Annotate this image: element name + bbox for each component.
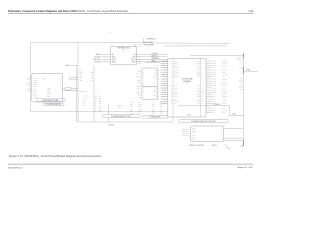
- wire J2 right pin 20: [206, 103, 225, 105]
- vertical wire C: [93, 66, 95, 122]
- svg-text:IGNITION: IGNITION: [152, 55, 158, 57]
- svg-text:SW B+: SW B+: [223, 101, 227, 103]
- svg-text:YEL: YEL: [213, 72, 216, 74]
- wire to page edge SPKR: [244, 70, 258, 72]
- wire jog down right: [229, 106, 243, 116]
- svg-text:GRN: GRN: [213, 85, 216, 87]
- svg-text:ORN: ORN: [80, 80, 83, 82]
- long horizontal net wire: [31, 111, 168, 113]
- svg-text:COL 3: COL 3: [192, 139, 196, 141]
- svg-text:SPKR HI: SPKR HI: [223, 96, 229, 98]
- svg-text:EMERG: EMERG: [136, 86, 141, 88]
- svg-text:GRN: GRN: [80, 70, 83, 72]
- wire J2 left pin 8: [161, 76, 168, 78]
- svg-text:1-95: 1-95: [248, 11, 253, 13]
- svg-text:SPK: SPK: [90, 76, 93, 78]
- wire right of central box: [178, 104, 229, 106]
- svg-text:4 WHT: 4 WHT: [47, 94, 51, 96]
- svg-text:BUSY: BUSY: [223, 107, 227, 109]
- svg-text:SPKR LO: SPKR LO: [237, 59, 242, 61]
- svg-text:GRN/Y: GRN/Y: [163, 103, 167, 105]
- wire J2 right pin 12: [206, 85, 225, 87]
- svg-text:6 MIC: 6 MIC: [33, 86, 36, 88]
- connector J4 box: [142, 87, 158, 100]
- wire J5 to bus upper 2: [69, 79, 78, 81]
- svg-text:GRN/Y: GRN/Y: [163, 92, 167, 94]
- svg-text:SW B+: SW B+: [117, 107, 121, 109]
- svg-text:BUS+: BUS+: [239, 78, 243, 80]
- svg-text:GRN/Y: GRN/Y: [163, 63, 167, 65]
- net labels left of top wires: [134, 43, 142, 48]
- svg-text:VIO: VIO: [213, 76, 215, 78]
- svg-text:GRN: GRN: [160, 104, 163, 106]
- wire J2 right pin 10: [206, 81, 227, 83]
- svg-text:SW B+: SW B+: [137, 80, 141, 82]
- svg-text:ORN: ORN: [197, 101, 200, 103]
- svg-text:SNS: SNS: [152, 110, 155, 112]
- svg-text:GND: GND: [174, 65, 177, 67]
- svg-text:ORN: ORN: [213, 110, 216, 112]
- svg-text:GRN: GRN: [99, 109, 102, 111]
- svg-text:RED: RED: [213, 81, 216, 83]
- svg-text:MIC: MIC: [156, 96, 158, 98]
- svg-text:SPKR+: SPKR+: [246, 70, 251, 72]
- right border dark segment bottom: [243, 140, 245, 146]
- svg-text:August 31, 2007: August 31, 2007: [238, 166, 254, 169]
- svg-text:IGN: IGN: [139, 95, 141, 97]
- wire J2 left pin 16: [161, 94, 168, 96]
- wire PWR pin right 2: [137, 55, 168, 57]
- svg-text:YEL: YEL: [213, 90, 216, 92]
- svg-text:SPKR 16: SPKR 16: [82, 100, 87, 102]
- svg-text:Schematics, Component Location: Schematics, Component Location Diagrams,…: [8, 10, 76, 13]
- svg-text:MIC 22: MIC 22: [82, 102, 86, 104]
- svg-text:BUSY: BUSY: [223, 90, 227, 92]
- wire bus junction: [63, 90, 78, 92]
- wire PA to bus: [66, 64, 78, 67]
- svg-text:RED: RED: [197, 90, 200, 92]
- figure caption: [9, 154, 101, 158]
- bottom border wire: [78, 121, 173, 123]
- svg-text:PTT: PTT: [138, 60, 141, 62]
- vertical bus wire B: [76, 66, 78, 122]
- svg-text:GND: GND: [154, 74, 157, 76]
- right border bus wire: [243, 53, 245, 146]
- svg-text:3 SWB+: 3 SWB+: [33, 80, 38, 82]
- svg-text:YEL: YEL: [197, 72, 200, 74]
- footer left text: [8, 167, 23, 169]
- wire J2 right pin 18: [206, 98, 227, 100]
- wire PWR pin right 3: [137, 58, 168, 60]
- svg-text:CLK: CLK: [174, 98, 177, 100]
- svg-text:NOTE 2: NOTE 2: [109, 125, 114, 127]
- sheet ref text: [241, 144, 244, 147]
- svg-text:GRN: GRN: [130, 102, 133, 104]
- svg-text:HOOK: HOOK: [138, 108, 142, 110]
- svg-text:FRNT 1 OF 2 SHOWN: FRNT 1 OF 2 SHOWN: [190, 145, 204, 147]
- svg-text:SPKR+: SPKR+: [137, 88, 141, 90]
- bottom main board label bar: [179, 120, 228, 124]
- wire J2 right pin 23: [206, 109, 227, 112]
- svg-text:COL 2: COL 2: [192, 137, 196, 139]
- svg-text:SPK: SPK: [95, 110, 98, 112]
- svg-text:GRN SWB+: GRN SWB+: [93, 59, 100, 61]
- svg-text:RED: RED: [213, 63, 216, 65]
- svg-text:BLK: BLK: [99, 98, 101, 100]
- svg-text:GND: GND: [133, 56, 136, 58]
- svg-text:CS: CS: [174, 103, 176, 105]
- wire J2 right pin 22: [206, 107, 226, 109]
- wire J6 to right border 2: [224, 138, 244, 140]
- svg-text:P/O INTERCONNECT BD: P/O INTERCONNECT BD: [46, 104, 61, 106]
- svg-text:9 TX: 9 TX: [33, 93, 36, 95]
- svg-text:GND: GND: [233, 114, 236, 116]
- svg-text:BLU: BLU: [99, 101, 101, 103]
- svg-text:MIC LO: MIC LO: [136, 58, 140, 60]
- svg-text:BLK: BLK: [213, 60, 216, 62]
- svg-text:SPKR HI: SPKR HI: [223, 78, 229, 80]
- net labels left margin group 1: [27, 73, 31, 80]
- svg-text:FL1: FL1: [67, 89, 69, 91]
- svg-text:+5V SW B+: +5V SW B+: [152, 53, 159, 55]
- svg-text:VIO: VIO: [198, 76, 200, 78]
- hook wire mark: [225, 144, 231, 149]
- svg-text:SNS: SNS: [138, 97, 141, 99]
- net labels left of J1 column: [136, 56, 142, 98]
- svg-text:MIC HI: MIC HI: [174, 74, 179, 76]
- filter FL1 box: [65, 87, 71, 90]
- svg-text:SPKR-: SPKR-: [137, 90, 141, 92]
- svg-text:SPKR-: SPKR-: [27, 84, 31, 86]
- wire J2 left pin 11: [157, 82, 168, 85]
- svg-text:RED: RED: [197, 63, 200, 65]
- wire J2 right pin 13: [206, 86, 226, 89]
- svg-text:RED: RED: [99, 107, 102, 109]
- svg-text:ORN: ORN: [213, 74, 216, 76]
- svg-text:MIC LO: MIC LO: [138, 104, 142, 106]
- svg-text:BLU: BLU: [197, 69, 200, 71]
- svg-text:SW B+: SW B+: [239, 67, 243, 69]
- connector J2 Control Head Interface box: [168, 58, 206, 117]
- svg-text:MIC HI: MIC HI: [223, 98, 228, 100]
- svg-text:BLK: BLK: [197, 87, 200, 89]
- svg-text:WHT: WHT: [130, 108, 133, 110]
- svg-text:2 BLK: 2 BLK: [47, 90, 50, 92]
- header title text: [8, 10, 254, 13]
- svg-text:PTT: PTT: [156, 65, 159, 67]
- svg-text:VIO: VIO: [99, 105, 101, 107]
- wire J2 left pin 4: [161, 67, 168, 69]
- svg-text:MIC HI: MIC HI: [137, 56, 142, 58]
- node label 5: [109, 32, 110, 34]
- svg-text:5: 5: [109, 32, 110, 34]
- label rows between buses: [82, 93, 89, 106]
- wire J2 right pin 1: [206, 60, 228, 62]
- wire central pin row 62: [145, 60, 161, 63]
- svg-text:GRN: GRN: [197, 94, 200, 96]
- svg-text:3 GRN: 3 GRN: [47, 92, 51, 94]
- svg-text:GRN/YEL: GRN/YEL: [161, 96, 167, 98]
- wire J2 right pin 5: [206, 68, 226, 71]
- svg-text:BLU: BLU: [80, 78, 83, 80]
- svg-text:WHT: WHT: [160, 110, 163, 112]
- svg-text:WHT: WHT: [99, 99, 102, 101]
- svg-text:5 BLU: 5 BLU: [47, 96, 50, 98]
- svg-text:CLK: CLK: [240, 84, 243, 86]
- svg-text:8 RX: 8 RX: [33, 90, 36, 92]
- svg-text:IGN: IGN: [154, 97, 156, 99]
- svg-text:TX: TX: [155, 80, 157, 82]
- connector J5 interconnect box: [32, 73, 63, 102]
- svg-text:GND: GND: [174, 94, 177, 96]
- wire J2 left pin 14: [161, 90, 168, 92]
- wire J2 right pin 16: [206, 94, 225, 96]
- wire J2 left pin 15: [156, 92, 168, 94]
- svg-text:GRN/Y: GRN/Y: [163, 78, 167, 80]
- svg-text:GND: GND: [152, 106, 155, 108]
- svg-text:10 VIP: 10 VIP: [33, 95, 37, 97]
- wire divider to bottom border: [172, 117, 174, 122]
- svg-text:OPT B+: OPT B+: [136, 92, 141, 94]
- svg-text:BLU: BLU: [197, 96, 200, 98]
- wire PWR pin left 4: [95, 61, 111, 63]
- svg-text:ROW 1: ROW 1: [192, 128, 196, 130]
- right border dark segment mid: [243, 67, 245, 74]
- svg-text:WHT SPK: WHT SPK: [95, 61, 101, 63]
- wire J2 left pin 17: [156, 96, 167, 98]
- svg-text:EMG: EMG: [152, 113, 155, 115]
- pin label stack right of wire C: [95, 94, 102, 113]
- vertical wire into bar: [107, 104, 109, 115]
- svg-text:MIC LO: MIC LO: [174, 76, 178, 78]
- svg-text:IGN: IGN: [152, 108, 154, 110]
- svg-text:ORN: ORN: [99, 103, 102, 105]
- wire J2 right pin 9: [206, 78, 228, 80]
- svg-text:GND: GND: [138, 71, 141, 73]
- svg-text:P101: P101: [187, 114, 190, 116]
- svg-text:MIC: MIC: [95, 94, 97, 96]
- svg-text:PTT: PTT: [223, 112, 226, 114]
- svg-text:COL 1: COL 1: [192, 134, 196, 136]
- svg-text:BLU: BLU: [213, 87, 216, 89]
- svg-text:5 SPKR+: 5 SPKR+: [33, 84, 38, 86]
- wire PWR pin left 2: [95, 56, 111, 58]
- svg-text:GRN/YEL: GRN/YEL: [161, 87, 167, 89]
- wire J6 to right border 3: [224, 139, 244, 141]
- svg-text:GND: GND: [90, 72, 93, 74]
- svg-text:11 EMG: 11 EMG: [33, 97, 38, 99]
- wire J2 right pin 6: [206, 72, 226, 74]
- svg-text:SW B+: SW B+: [174, 92, 178, 94]
- footer rule: [8, 163, 253, 165]
- wire J2 left pin 13: [157, 87, 168, 89]
- net label row on bus: [79, 89, 87, 92]
- svg-text:SW B+: SW B+: [223, 83, 227, 85]
- footer right text: [238, 166, 254, 169]
- svg-text:ROW 3: ROW 3: [192, 132, 196, 134]
- wire J2 left pin 19: [161, 101, 168, 103]
- svg-text:VIP 1: VIP 1: [138, 82, 141, 84]
- svg-text:BUSY: BUSY: [174, 63, 178, 65]
- svg-text:MIC: MIC: [154, 70, 156, 72]
- svg-text:MIC HI: MIC HI: [223, 81, 228, 83]
- P/O interconnect label bar: [43, 103, 64, 106]
- svg-text:PTT: PTT: [95, 96, 98, 98]
- right net labels group 2: [239, 67, 243, 72]
- svg-text:PTT: PTT: [91, 80, 94, 82]
- svg-text:GND: GND: [95, 98, 98, 100]
- pin labels on bus top group: [80, 69, 94, 82]
- svg-text:BLK GND: BLK GND: [95, 56, 101, 58]
- wire J2 left pin 9: [157, 78, 168, 80]
- svg-text:ORN: ORN: [213, 92, 216, 94]
- svg-text:WHT: WHT: [197, 65, 200, 67]
- wire J2 right pin 14: [206, 90, 226, 92]
- second main board bar: [142, 116, 168, 119]
- svg-text:GND 16: GND 16: [117, 105, 122, 107]
- svg-text:GND: GND: [112, 56, 115, 58]
- svg-text:BLU: BLU: [213, 69, 216, 71]
- wire J2 right pin 11: [206, 83, 227, 85]
- svg-text:SPKR+: SPKR+: [27, 82, 31, 84]
- wire J2 right pin 17: [206, 96, 228, 98]
- top right wire IGNITION: [144, 44, 227, 46]
- wire J2 right pin 8: [206, 76, 225, 78]
- wire J6 to right border 1: [224, 127, 244, 129]
- svg-text:SW B+ 16: SW B+ 16: [82, 98, 88, 100]
- header rule: [8, 12, 253, 14]
- svg-text:RED: RED: [130, 104, 133, 106]
- svg-text:RED: RED: [213, 98, 216, 100]
- svg-text:VIO: VIO: [198, 103, 200, 105]
- svg-text:4 SPKR-: 4 SPKR-: [33, 82, 38, 84]
- svg-text:6816532H01-B: 6816532H01-B: [8, 167, 23, 169]
- net label stack under J4 col A: [130, 102, 143, 115]
- svg-text:P1 (SHEET 2): P1 (SHEET 2): [146, 39, 156, 41]
- svg-text:WHT: WHT: [213, 83, 216, 85]
- svg-text:SW B+: SW B+: [223, 65, 227, 67]
- svg-text:RESET: RESET: [239, 86, 243, 88]
- connector P2 PWR AMPL ASSY box: [111, 46, 137, 65]
- svg-text:GND: GND: [223, 103, 226, 105]
- wire box to right border top: [190, 55, 244, 57]
- labels above main board bar: [117, 105, 122, 109]
- svg-text:SWB+: SWB+: [27, 78, 31, 80]
- svg-text:YEL: YEL: [160, 108, 163, 110]
- wire J2 right pin 19: [206, 101, 227, 103]
- svg-text:LO: LO: [99, 96, 101, 98]
- node P1 stub: [143, 38, 156, 43]
- svg-text:SWB+: SWB+: [152, 104, 156, 106]
- wire J2 left pin 20: [161, 103, 168, 105]
- net labels left of J6: [182, 128, 189, 138]
- net labels left margin group 3: [27, 88, 32, 92]
- net label stack under J4 col B: [152, 101, 163, 115]
- svg-text:BLK: BLK: [160, 106, 163, 108]
- svg-text:HOOK: HOOK: [137, 63, 141, 65]
- svg-text:RX: RX: [155, 78, 157, 80]
- top right wire label SW B+: [144, 41, 153, 44]
- svg-text:SPKR: SPKR: [112, 61, 116, 63]
- wire FL1 to bus: [72, 88, 79, 90]
- wire J2 right pin 24: [206, 112, 225, 114]
- svg-text:2 GND: 2 GND: [33, 78, 37, 80]
- svg-text:OPT: OPT: [154, 88, 157, 90]
- svg-text:SPKR-: SPKR-: [132, 61, 137, 63]
- svg-text:NOTE 1: NOTE 1: [212, 145, 217, 147]
- svg-text:YEL: YEL: [99, 110, 102, 112]
- svg-text:BUSY: BUSY: [239, 80, 243, 82]
- svg-text:7 PTT: 7 PTT: [33, 88, 37, 90]
- svg-text:GRN: GRN: [213, 67, 216, 69]
- svg-text:WHT: WHT: [213, 101, 216, 103]
- svg-text:PTT: PTT: [154, 72, 157, 74]
- svg-text:WHT: WHT: [80, 76, 83, 78]
- svg-text:GND: GND: [154, 91, 157, 93]
- wire J2 right pin 21: [206, 104, 226, 107]
- interconnect board label bar: [36, 99, 65, 102]
- wire J2 left pin 2: [161, 63, 168, 65]
- wire J5 to FL1: [63, 88, 66, 90]
- svg-text:BLK: BLK: [80, 74, 83, 76]
- svg-text:PMLN4044_ Control Head / Keypa: PMLN4044_ Control Head / Keypad Board Sc…: [74, 10, 130, 13]
- svg-text:RED: RED: [80, 72, 83, 74]
- svg-text:MIC: MIC: [156, 60, 158, 62]
- wire J2 left pin 18: [161, 98, 168, 100]
- svg-text:SNS: SNS: [154, 95, 157, 97]
- note under J6: [190, 145, 218, 147]
- net labels left margin group 2: [27, 82, 32, 86]
- svg-text:ROW 2: ROW 2: [192, 130, 196, 132]
- svg-text:EMERGENCY: EMERGENCY: [152, 58, 160, 60]
- svg-text:PTT 22: PTT 22: [82, 104, 86, 106]
- wire J2 left pin 3: [156, 65, 168, 67]
- svg-text:GRN/YE: GRN/YE: [162, 60, 167, 62]
- svg-text:BLK: BLK: [213, 78, 216, 80]
- wire J2 left pin 6: [161, 72, 168, 74]
- svg-text:GND: GND: [138, 110, 141, 112]
- wire J2 right pin 4: [206, 67, 225, 69]
- schematic border left edge: [30, 42, 32, 111]
- wire J2 left pin 12: [161, 85, 168, 87]
- right net labels group 3: [239, 78, 243, 91]
- svg-text:WHT: WHT: [213, 65, 216, 67]
- svg-text:PTT: PTT: [223, 76, 226, 78]
- right border dark segment top: [243, 53, 245, 58]
- svg-text:GRN: GRN: [213, 103, 216, 105]
- svg-text:Figure 1-97. PMLN4044_ Control: Figure 1-97. PMLN4044_ Control Head Boar…: [9, 154, 101, 158]
- svg-text:SB9600: SB9600: [174, 67, 179, 69]
- svg-text:BUS+: BUS+: [174, 60, 178, 62]
- schematic border top edge (skewed): [31, 42, 230, 43]
- svg-text:SPKR HI: SPKR HI: [223, 60, 229, 62]
- svg-text:WHT: WHT: [197, 92, 200, 94]
- svg-text:ORN: ORN: [197, 74, 200, 76]
- svg-text:BLU: BLU: [130, 110, 133, 112]
- note label under bar: [109, 125, 114, 127]
- svg-text:BLU: BLU: [213, 105, 216, 107]
- svg-text:HK: HK: [95, 99, 97, 101]
- wire J2 left pin 7: [157, 74, 168, 76]
- svg-text:RESET: RESET: [174, 101, 178, 103]
- svg-text:1 RED: 1 RED: [47, 88, 51, 90]
- wire PWR pin left 3: [93, 59, 110, 61]
- svg-text:BLU: BLU: [160, 113, 163, 115]
- wire J5 to bus upper 1: [69, 77, 78, 79]
- svg-text:GND: GND: [223, 85, 226, 87]
- svg-text:MIC HI: MIC HI: [27, 88, 32, 90]
- svg-text:GND: GND: [240, 89, 243, 91]
